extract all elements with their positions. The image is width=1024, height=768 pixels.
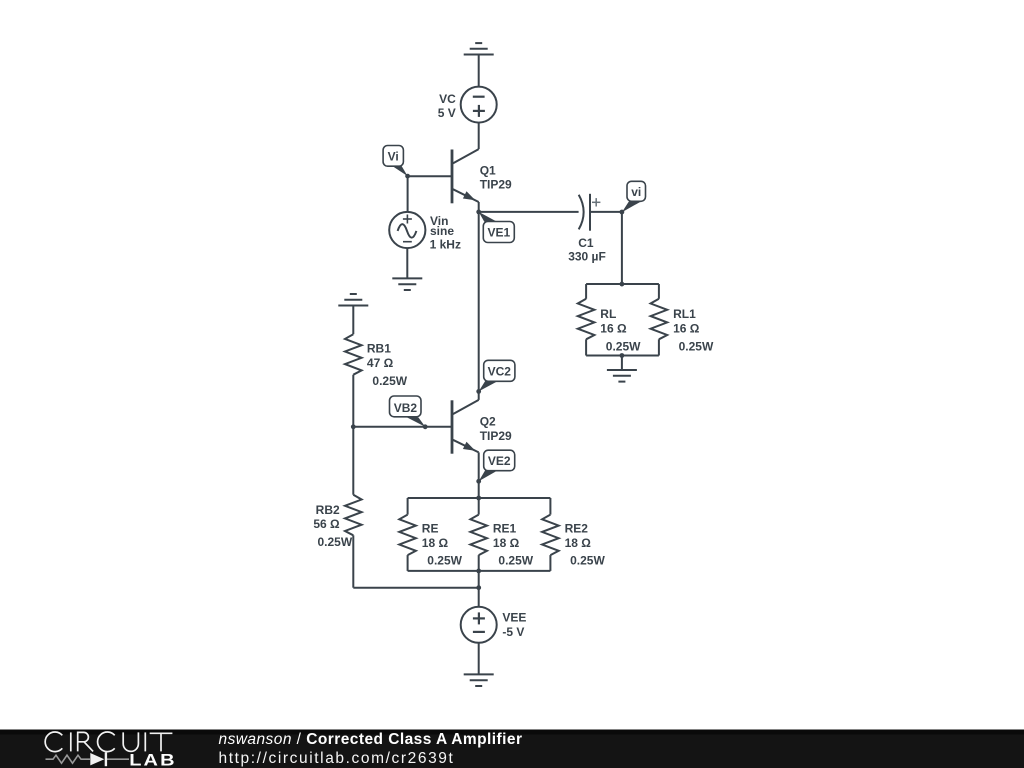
svg-text:Q2: Q2 — [480, 415, 496, 429]
label Q2 TIP29 — [480, 415, 512, 443]
voltage source VC — [461, 87, 497, 123]
resistor RE1 — [470, 498, 487, 571]
node vi flag — [620, 181, 646, 214]
svg-text:nswanson / Corrected Class A A: nswanson / Corrected Class A Amplifier — [219, 731, 523, 748]
label RL 16ohm 0.25W — [600, 307, 641, 353]
svg-text:0.25W: 0.25W — [606, 339, 641, 353]
svg-text:330 µF: 330 µF — [568, 250, 606, 264]
svg-text:0.25W: 0.25W — [372, 374, 407, 388]
svg-text:VE1: VE1 — [487, 225, 510, 239]
node VE1 flag — [476, 210, 514, 243]
transistor Q2 — [452, 391, 479, 498]
wire VC to Q1 collector — [478, 123, 480, 150]
node junction RE top — [476, 496, 481, 501]
node Vi flag — [383, 146, 410, 179]
svg-text:16 Ω: 16 Ω — [673, 322, 700, 336]
label RE2 18ohm 0.25W — [565, 522, 606, 568]
node junction RL top — [620, 282, 625, 287]
footer bar — [0, 730, 1024, 768]
ground (top, above VC) — [464, 43, 494, 54]
svg-text:0.25W: 0.25W — [570, 554, 605, 568]
wire RB2 to VEE node — [353, 587, 478, 589]
svg-text:0.25W: 0.25W — [679, 339, 714, 353]
ground (below Vin) — [392, 278, 422, 290]
wire VEE to ground — [478, 643, 480, 675]
resistor RE2 — [542, 498, 559, 571]
svg-text:TIP29: TIP29 — [480, 429, 512, 443]
label RB2 56ohm 0.25W — [313, 503, 352, 549]
resistor RB1 — [345, 334, 362, 427]
svg-text:0.25W: 0.25W — [498, 554, 533, 568]
label RE1 18ohm 0.25W — [493, 522, 534, 568]
svg-text:VB2: VB2 — [394, 401, 418, 415]
label RE 18ohm 0.25W — [422, 522, 463, 568]
svg-text:VC2: VC2 — [488, 365, 512, 379]
svg-text:RL1: RL1 — [673, 307, 696, 321]
svg-text:vi: vi — [631, 185, 641, 199]
svg-text:Vi: Vi — [388, 149, 399, 163]
svg-text:TIP29: TIP29 — [480, 178, 512, 192]
label C1 330 uF — [568, 236, 606, 264]
wire C1 to vi node — [590, 211, 622, 213]
resistor RE — [399, 498, 416, 571]
voltage source Vin — [389, 212, 425, 248]
logo diode symbol — [90, 753, 104, 765]
label RL1 16ohm 0.25W — [673, 307, 714, 353]
ground (below RL group) — [607, 370, 637, 382]
svg-text:RB1: RB1 — [367, 342, 391, 356]
logo resistor-diode — [46, 755, 130, 763]
RE parallel group rails — [408, 498, 551, 571]
svg-text:16 Ω: 16 Ω — [600, 322, 627, 336]
svg-text:5 V: 5 V — [438, 106, 456, 120]
label Q1 TIP29 — [480, 163, 512, 191]
ground (below VEE) — [464, 674, 494, 686]
wire ground to VC — [478, 55, 480, 87]
node junction RE bottom — [476, 569, 481, 574]
label RB1 47ohm 0.25W — [367, 342, 408, 389]
svg-text:C1: C1 — [578, 236, 594, 250]
wire Vin to ground — [406, 248, 408, 278]
voltage source VEE — [461, 607, 497, 643]
resistor RB2 — [345, 427, 362, 588]
node junction RL bottom — [620, 353, 625, 358]
svg-text:RB2: RB2 — [316, 503, 340, 517]
wire RE bottom to VEE node — [478, 571, 480, 607]
svg-text:sine: sine — [430, 224, 454, 238]
svg-text:47 Ω: 47 Ω — [367, 356, 394, 370]
svg-text:RE2: RE2 — [565, 522, 589, 536]
svg-text:56 Ω: 56 Ω — [313, 517, 340, 531]
label VEE -5 V — [502, 611, 526, 639]
wire Q2 base — [353, 426, 452, 428]
capacitor C1 — [579, 194, 601, 231]
node VE2 flag — [476, 450, 514, 483]
svg-text:VEE: VEE — [502, 611, 526, 625]
svg-text:Q1: Q1 — [480, 163, 496, 177]
node VC2 flag — [476, 360, 515, 394]
svg-text:LAB: LAB — [129, 750, 177, 768]
svg-text:http://circuitlab.com/cr2639t: http://circuitlab.com/cr2639t — [219, 750, 455, 767]
wire ground to RB1 — [352, 306, 354, 335]
wire VE1 to C1 — [479, 211, 579, 213]
svg-text:18 Ω: 18 Ω — [565, 536, 592, 550]
RL parallel group rails — [586, 284, 659, 355]
svg-text:1 kHz: 1 kHz — [430, 237, 461, 251]
wire Q1 base — [408, 175, 452, 177]
label Vin sine 1 kHz — [430, 214, 461, 251]
svg-text:RE: RE — [422, 522, 439, 536]
svg-text:VC: VC — [439, 92, 456, 106]
svg-text:18 Ω: 18 Ω — [422, 536, 449, 550]
node VB2 flag — [390, 396, 428, 429]
svg-text:0.25W: 0.25W — [427, 554, 462, 568]
wire Q1 emitter down to Q2 collector — [478, 212, 480, 392]
wire vi node down to RL group — [621, 212, 623, 284]
svg-text:VE2: VE2 — [488, 454, 511, 468]
node junction base/RB1/RB2 — [351, 424, 356, 429]
svg-text:RE1: RE1 — [493, 522, 517, 536]
node junction VEE top — [476, 585, 481, 590]
wire RL group to ground — [621, 356, 623, 371]
wire Vi node to Vin — [407, 176, 409, 212]
transistor Q1 — [452, 149, 479, 212]
ground (above RB1) — [338, 294, 368, 306]
label VC 5 V — [438, 92, 456, 120]
svg-text:-5 V: -5 V — [502, 625, 524, 639]
svg-text:0.25W: 0.25W — [318, 535, 353, 549]
resistor RL1 — [651, 284, 668, 355]
svg-text:18 Ω: 18 Ω — [493, 536, 520, 550]
resistor RL — [578, 284, 595, 355]
svg-text:RL: RL — [600, 307, 616, 321]
logo CIRCUIT — [45, 732, 172, 752]
